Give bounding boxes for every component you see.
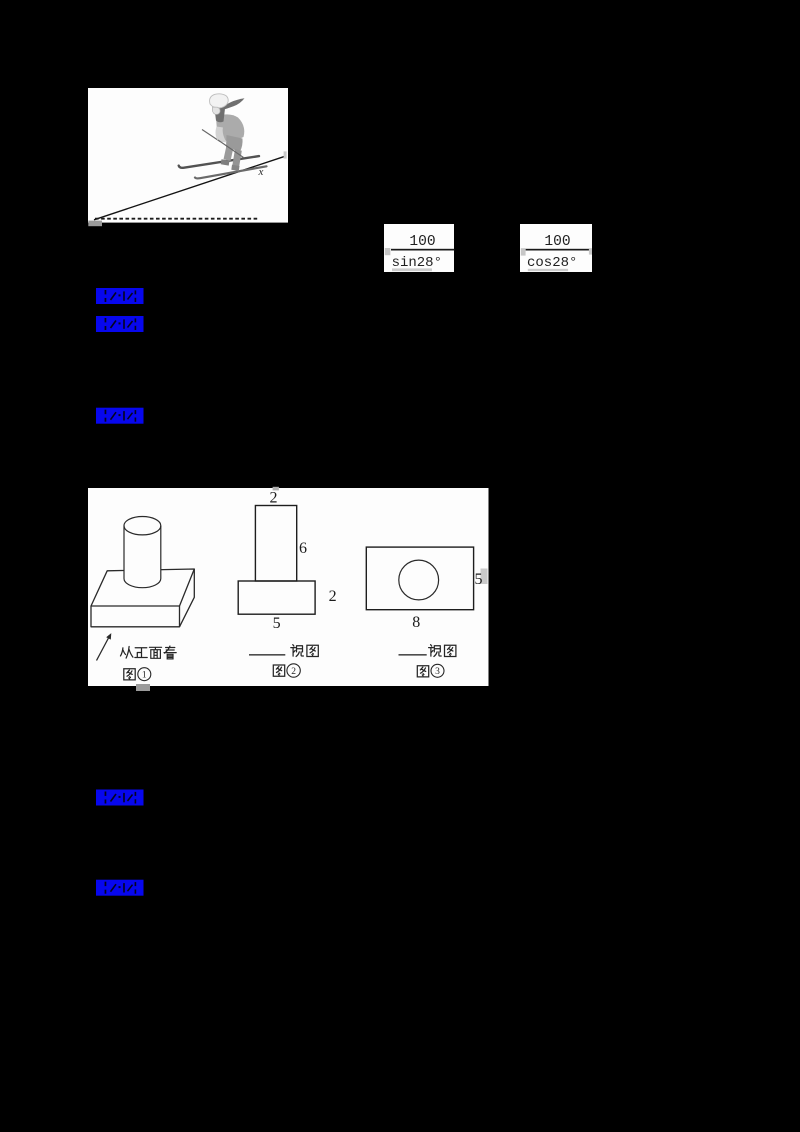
rear leg (232, 149, 242, 168)
neck scarf wrap (215, 107, 226, 123)
torso jacket (216, 114, 244, 142)
arm sleeve (216, 127, 227, 143)
blue marker 2 (96, 316, 144, 332)
three-view figure box (image B) (88, 487, 489, 686)
label shitu 2 (291, 645, 319, 657)
svg-text:3: 3 (435, 667, 440, 677)
caption tu-3 (417, 664, 444, 677)
pants hip (226, 135, 243, 152)
grey smudge bottom-left (88, 221, 102, 227)
front leg (224, 146, 234, 162)
fraction 100/cos28 box (520, 224, 592, 272)
label shitu 3 (429, 645, 456, 657)
svg-text:2: 2 (329, 588, 337, 605)
blank line 3 (399, 654, 427, 656)
blue marker 1 (96, 288, 144, 304)
svg-text:100: 100 (544, 234, 570, 250)
grey smudge right edge (284, 151, 287, 158)
upper ski (179, 156, 259, 168)
dashed baseline (95, 218, 259, 220)
label cong-zheng-mian-kan (121, 646, 177, 659)
svg-text:8: 8 (412, 614, 420, 631)
svg-text:cos28°: cos28° (527, 255, 577, 271)
smudge behind 5 (481, 569, 488, 585)
fraction bar 1 (391, 249, 455, 251)
grey smudges frac2 (521, 248, 526, 255)
lower ski (195, 166, 267, 178)
svg-text:x: x (258, 166, 264, 178)
svg-text:2: 2 (291, 667, 296, 677)
side-view rectangle (366, 547, 473, 610)
front-view T shape: tall rect (255, 506, 296, 582)
blue marker 3 (96, 408, 144, 424)
fraction 100/sin28 box (384, 224, 455, 272)
smudge above 2 (273, 487, 279, 491)
fraction bar 2 (526, 249, 590, 251)
svg-text:1: 1 (142, 671, 147, 681)
svg-text:2: 2 (270, 489, 278, 506)
caption tu-1 (124, 668, 151, 681)
circle inside side view (399, 560, 439, 600)
svg-text:5: 5 (475, 571, 483, 588)
scarf tail (220, 98, 245, 110)
boot front (221, 159, 230, 165)
svg-text:6: 6 (299, 540, 307, 557)
hat (210, 94, 229, 108)
blue marker 5 (96, 880, 144, 896)
face (212, 107, 220, 114)
svg-text:100: 100 (409, 234, 435, 250)
blank line 2 (249, 654, 285, 656)
svg-text:5: 5 (273, 615, 281, 632)
skier figure box (image A) (88, 88, 288, 226)
caption tu-2 (273, 664, 300, 677)
cylinder of figure 1 (124, 517, 161, 588)
ski pole lower (218, 140, 244, 158)
slope line (94, 156, 285, 219)
grey smudges frac1 (385, 248, 391, 255)
view arrow (97, 633, 112, 660)
front-view T shape: base rect (238, 581, 315, 614)
cuboid base of figure 1 (91, 569, 194, 627)
blue marker 4 (96, 790, 144, 806)
ski pole upper (202, 130, 220, 142)
boot rear (231, 165, 239, 171)
grey smudge below tu-1 caption (136, 684, 150, 691)
